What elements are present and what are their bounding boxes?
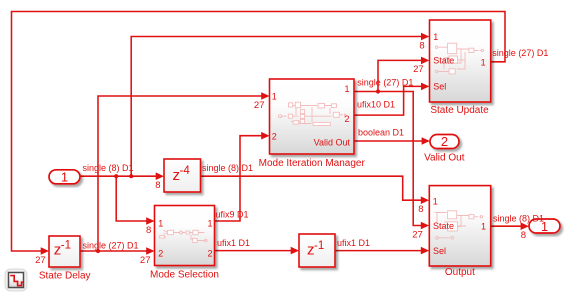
wire: Mode Selection output 1 to Mode Iteration Manager input 2 (ufix9 D1) (215, 132, 270, 221)
block: z-4 delay (164, 159, 201, 192)
svg-text:2: 2 (207, 249, 212, 259)
wire: branch down from Inport wire to Mode Selection input 1 (116, 176, 154, 225)
svg-text:1: 1 (433, 32, 438, 42)
wire: State Update output feedback loop to State Delay input (single 27 D1) (12, 12, 506, 255)
svg-text:Mode Selection: Mode Selection (150, 270, 219, 281)
svg-text:State: State (433, 56, 454, 66)
svg-text:1: 1 (207, 218, 212, 228)
svg-text:2: 2 (441, 134, 448, 149)
junction on Inport wire (branch to Mode Selection) (114, 174, 118, 178)
port labels of Mode Iteration Manager (272, 84, 351, 147)
outport 1 oval (529, 219, 560, 234)
sketch inside Mode Selection (160, 230, 207, 243)
svg-text:-1: -1 (61, 240, 71, 252)
svg-text:Output: Output (445, 267, 475, 278)
outport 2 oval (Valid Out) (430, 134, 459, 149)
svg-text:8: 8 (418, 204, 423, 215)
svg-text:2: 2 (272, 131, 277, 141)
svg-text:1: 1 (272, 92, 277, 102)
svg-text:Valid Out: Valid Out (424, 152, 465, 163)
svg-text:ufix9 D1: ufix9 D1 (216, 209, 249, 219)
wire: Mode Iteration Manager output 1 to Output block State input (single 27 D1) (354, 92, 429, 230)
svg-text:single (8) D1: single (8) D1 (493, 213, 544, 223)
svg-text:1: 1 (481, 222, 486, 232)
svg-text:8: 8 (521, 230, 526, 241)
svg-text:27: 27 (412, 229, 423, 240)
block: Mode Selection subsystem (155, 206, 215, 266)
svg-text:-4: -4 (180, 165, 191, 177)
wire: branch up to State Update State input (378, 57, 429, 92)
svg-text:ufix1 D1: ufix1 D1 (217, 238, 250, 248)
svg-text:1: 1 (344, 84, 349, 94)
svg-text:8: 8 (155, 180, 160, 191)
wire: z-1 delay output to Output block Sel input (ufix1 D1) (335, 247, 429, 255)
svg-text:2: 2 (344, 114, 349, 124)
port labels of State Update (433, 32, 486, 91)
svg-text:State: State (433, 221, 454, 231)
svg-text:Sel: Sel (433, 82, 446, 92)
port labels of Output (433, 197, 486, 256)
wire: branch from State Delay output up to Mode Iteration Manager input 1 (98, 92, 270, 251)
wire: branch up from Inport wire to State Update input 1 (131, 33, 429, 177)
wire: State Delay output to Mode Selection input 2 (80, 247, 155, 255)
port labels of Mode Selection (158, 218, 212, 258)
junction on Mode Iteration Manager output 1 wire (376, 89, 380, 93)
svg-text:single (8) D1: single (8) D1 (83, 163, 134, 173)
svg-text:8: 8 (419, 41, 424, 52)
svg-text:1: 1 (61, 170, 68, 185)
svg-text:single (27) D1: single (27) D1 (492, 48, 548, 58)
junction on Inport wire (branch to State Update) (129, 174, 133, 178)
svg-text:ufix10 D1: ufix10 D1 (357, 99, 395, 109)
block: Output subsystem (429, 186, 490, 266)
svg-text:single (27) D1: single (27) D1 (83, 240, 139, 250)
svg-text:ufix1 D1: ufix1 D1 (337, 238, 370, 248)
svg-text:27: 27 (413, 64, 424, 75)
block: Mode Iteration Manager subsystem (270, 79, 355, 154)
wire: Mode Selection output 2 to z-1 delay input (ufix1 D1) (215, 247, 300, 255)
inport 1 oval (49, 170, 80, 185)
svg-text:27: 27 (35, 255, 46, 266)
svg-text:single (27) D1: single (27) D1 (357, 77, 413, 87)
wire: Mode Iteration Manager Valid Out to Outport 2 (boolean D1) (354, 137, 430, 145)
wire: Output block output to Outport 1 (single 8 D1) (491, 222, 529, 230)
junction on State Delay output wire (96, 249, 100, 253)
wire: z-4 delay output to Output block input 1 (single 8 D1) (201, 176, 430, 204)
svg-text:1: 1 (433, 197, 438, 207)
svg-text:-1: -1 (314, 240, 324, 252)
svg-text:State Delay: State Delay (39, 270, 91, 281)
svg-text:2: 2 (158, 249, 163, 259)
svg-text:8: 8 (146, 225, 151, 236)
icon: sample time legend button bottom left (5, 269, 27, 291)
wire: Inport 1 to z-4 delay input (single 8 D1) (80, 172, 164, 180)
svg-text:Sel: Sel (433, 246, 446, 256)
svg-text:27: 27 (140, 255, 151, 266)
svg-text:single (8) D1: single (8) D1 (202, 163, 253, 173)
block: State Update subsystem (430, 20, 491, 102)
svg-text:1: 1 (158, 218, 163, 228)
svg-text:State Update: State Update (430, 105, 489, 116)
svg-text:27: 27 (254, 100, 265, 111)
sketch inside Output (435, 211, 483, 239)
svg-text:Valid Out: Valid Out (314, 138, 351, 148)
wire: Mode Iteration Manager output 2 to State Update Sel input (ufix10 D1) (354, 83, 429, 116)
sketch inside State Update (435, 43, 483, 74)
svg-text:1: 1 (481, 58, 486, 68)
block: z-1 delay (bottom) (299, 234, 335, 267)
svg-text:Mode Iteration Manager: Mode Iteration Manager (259, 158, 366, 169)
block: State Delay (unit delay z^-1) (49, 236, 80, 267)
svg-text:boolean D1: boolean D1 (358, 128, 404, 138)
sketch inside Mode Iteration Manager (279, 102, 347, 125)
